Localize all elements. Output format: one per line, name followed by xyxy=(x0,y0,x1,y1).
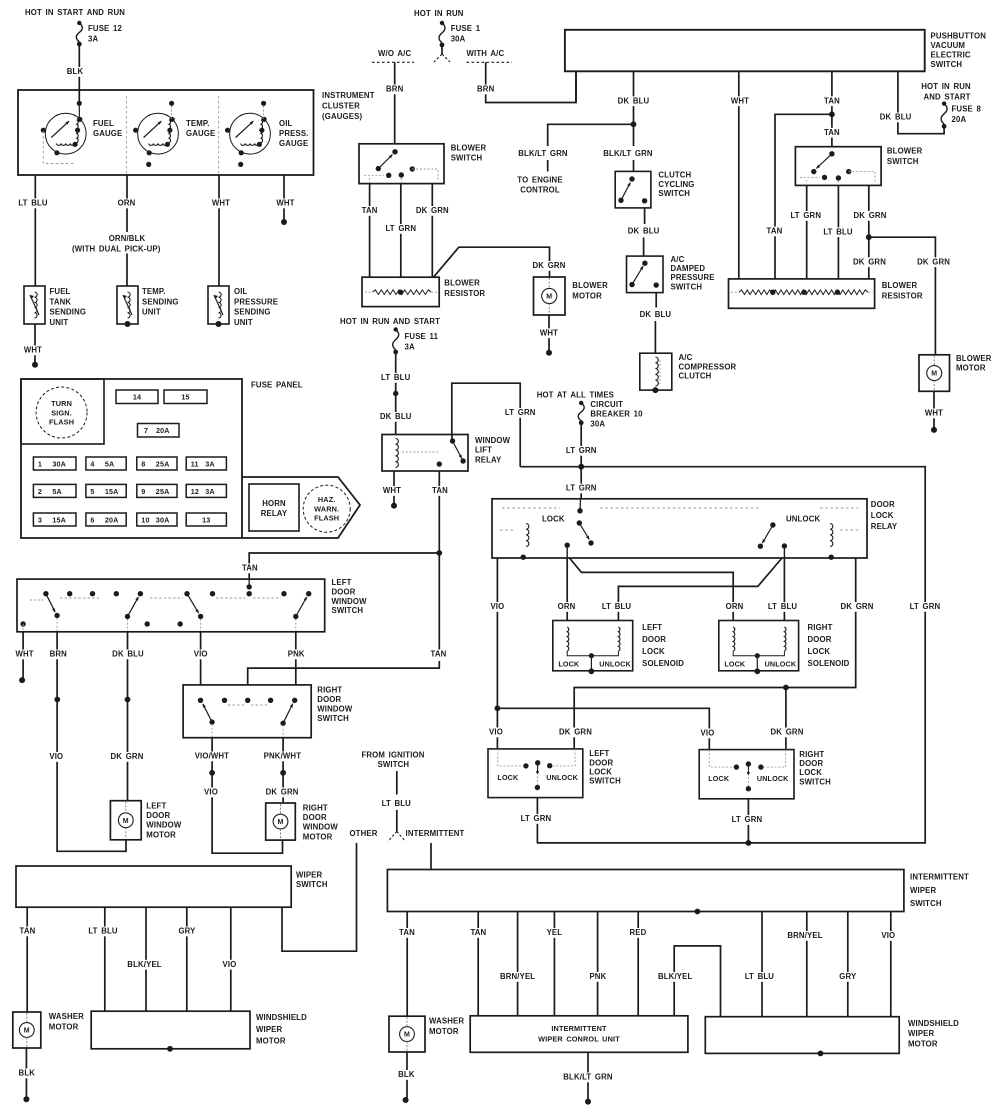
wire split w/o A/C vs with A/C xyxy=(441,45,443,54)
svg-text:DK GRN: DK GRN xyxy=(266,788,299,797)
label ORN/BLK with dual pick-up xyxy=(95,232,159,253)
wire LT BLU relay to right solenoid xyxy=(783,558,785,621)
svg-text:RIGHT: RIGHT xyxy=(317,686,342,695)
svg-text:WINDSHIELD: WINDSHIELD xyxy=(256,1013,307,1022)
oil pressure sending unit xyxy=(208,286,229,324)
wire VIO to right window switch xyxy=(200,632,202,685)
svg-text:PNK: PNK xyxy=(589,972,606,981)
wire BLK/YEL control unit to wiper motor xyxy=(674,946,720,1017)
svg-text:8: 8 xyxy=(141,459,145,468)
svg-text:PNK: PNK xyxy=(288,650,305,659)
svg-text:WIPER: WIPER xyxy=(908,1029,935,1038)
wire LT BLU to right wiper motor xyxy=(761,912,763,1017)
svg-text:6: 6 xyxy=(90,515,94,524)
svg-text:3A: 3A xyxy=(205,487,215,496)
svg-text:DK GRN: DK GRN xyxy=(917,257,950,266)
svg-text:DOOR: DOOR xyxy=(799,759,823,768)
svg-text:BLOWER: BLOWER xyxy=(572,281,608,290)
svg-text:LIFT: LIFT xyxy=(475,446,492,455)
wire LT GRN blower switch to resistor xyxy=(400,184,402,278)
svg-text:W/O A/C: W/O A/C xyxy=(378,49,411,58)
left door lock solenoid coils xyxy=(567,627,569,651)
svg-text:DK BLU: DK BLU xyxy=(380,412,412,421)
svg-text:10: 10 xyxy=(141,515,149,524)
blower motor left label xyxy=(532,261,566,271)
svg-text:FUSE 8: FUSE 8 xyxy=(952,105,982,114)
svg-text:CLUTCH: CLUTCH xyxy=(679,372,712,381)
svg-text:BLK/LT GRN: BLK/LT GRN xyxy=(518,149,568,158)
svg-text:LT BLU: LT BLU xyxy=(88,927,118,936)
svg-text:FLASH: FLASH xyxy=(49,418,74,427)
svg-text:PRESS.: PRESS. xyxy=(279,129,309,138)
svg-text:CIRCUIT: CIRCUIT xyxy=(590,400,623,409)
svg-text:SENDING: SENDING xyxy=(50,308,87,317)
blower switch left internals xyxy=(392,149,397,154)
svg-text:MOTOR: MOTOR xyxy=(303,832,333,841)
svg-text:INTERMITTENT: INTERMITTENT xyxy=(406,829,465,838)
wire WHT from cluster to oil sender xyxy=(218,175,220,286)
svg-text:DOOR: DOOR xyxy=(303,813,327,822)
clutch cycling switch box xyxy=(615,171,651,208)
svg-text:WHT: WHT xyxy=(731,96,749,105)
svg-text:HOT IN RUN: HOT IN RUN xyxy=(414,9,464,18)
right door window switch contacts xyxy=(198,698,203,703)
svg-text:WHT: WHT xyxy=(540,328,558,337)
svg-text:VIO: VIO xyxy=(489,728,503,737)
svg-text:FUSE 1: FUSE 1 xyxy=(451,24,481,33)
svg-text:WHT: WHT xyxy=(24,346,42,355)
svg-text:LT BLU: LT BLU xyxy=(381,373,411,382)
svg-text:HORN: HORN xyxy=(262,499,286,508)
door lock relay coils xyxy=(526,524,529,547)
svg-text:SWITCH: SWITCH xyxy=(296,880,328,889)
svg-text:LEFT: LEFT xyxy=(589,749,609,758)
svg-text:1: 1 xyxy=(38,459,42,468)
right door window switch box xyxy=(183,685,311,738)
svg-text:DOOR: DOOR xyxy=(317,695,341,704)
svg-text:TAN: TAN xyxy=(399,928,415,937)
svg-text:BREAKER 10: BREAKER 10 xyxy=(590,410,643,419)
wire ORN from cluster xyxy=(126,175,128,286)
svg-text:WIPER: WIPER xyxy=(256,1025,283,1034)
svg-text:WITH A/C: WITH A/C xyxy=(467,49,505,58)
svg-text:DK BLU: DK BLU xyxy=(618,96,650,105)
svg-text:RESISTOR: RESISTOR xyxy=(444,289,485,298)
svg-text:15: 15 xyxy=(181,393,189,402)
svg-text:LT BLU: LT BLU xyxy=(745,972,775,981)
svg-text:3A: 3A xyxy=(205,459,215,468)
svg-text:5A: 5A xyxy=(105,459,115,468)
svg-text:LOCK: LOCK xyxy=(871,511,894,520)
svg-text:VIO: VIO xyxy=(223,960,237,969)
fuse 13 xyxy=(186,513,226,526)
svg-text:RIGHT: RIGHT xyxy=(799,750,824,759)
left door lock solenoid box xyxy=(553,621,633,671)
windshield wiper motor left box xyxy=(91,1011,250,1049)
wire LT BLU to wiper motor xyxy=(104,907,106,1011)
svg-text:30A: 30A xyxy=(590,419,605,428)
wire DK GRN resistor to left blower motor xyxy=(434,247,550,277)
svg-text:SWITCH: SWITCH xyxy=(910,899,942,908)
svg-text:WHT: WHT xyxy=(15,650,33,659)
windshield wiper motor right box xyxy=(705,1017,899,1054)
svg-text:ORN/BLK: ORN/BLK xyxy=(109,234,146,243)
wire DK GRN branch to right blower motor xyxy=(869,237,936,355)
svg-text:11: 11 xyxy=(191,459,199,468)
wire PNK to right window switch xyxy=(295,632,297,685)
blower resistor right box xyxy=(729,279,875,308)
svg-text:3A: 3A xyxy=(405,343,415,352)
blower switch left box xyxy=(359,144,444,184)
fuse 6 20A xyxy=(86,513,126,526)
svg-text:WASHER: WASHER xyxy=(429,1017,464,1026)
svg-text:VIO: VIO xyxy=(49,752,63,761)
wire crossover lock to right solenoid ORN xyxy=(570,558,734,621)
wire VIO/WHT / VIO to right window motor xyxy=(212,738,282,854)
svg-text:30A: 30A xyxy=(451,35,466,44)
svg-text:MOTOR: MOTOR xyxy=(429,1027,459,1036)
svg-text:VIO: VIO xyxy=(701,729,715,738)
svg-text:LOCK: LOCK xyxy=(708,774,730,783)
wire LT BLU from cluster xyxy=(34,175,36,286)
svg-text:WIPER CONROL UNIT: WIPER CONROL UNIT xyxy=(538,1035,620,1044)
svg-text:TAN: TAN xyxy=(242,564,258,573)
svg-text:DK BLU: DK BLU xyxy=(628,227,660,236)
wire TAN wiper switch to washer motor xyxy=(26,907,28,1012)
fuse F1 30A xyxy=(439,23,445,43)
fuse panel outline xyxy=(21,379,360,538)
ignition wire split other/intermittent xyxy=(388,831,397,841)
wire BRN with A/C to pushbutton switch xyxy=(486,62,576,102)
door lock relay box xyxy=(492,499,867,558)
svg-text:12: 12 xyxy=(191,487,199,496)
svg-text:A/C: A/C xyxy=(679,353,693,362)
svg-text:INSTRUMENT: INSTRUMENT xyxy=(322,91,375,100)
svg-text:CLUTCH: CLUTCH xyxy=(658,171,691,180)
svg-text:13: 13 xyxy=(202,515,210,524)
svg-text:BRN/YEL: BRN/YEL xyxy=(500,972,535,981)
wire DK BLU / DK GRN to left window motor xyxy=(127,632,129,801)
svg-text:VIO/WHT: VIO/WHT xyxy=(195,752,229,761)
wire WHT right blower motor to ground xyxy=(933,391,935,430)
wire VIO branch to right lock switch xyxy=(497,708,709,749)
svg-text:HOT IN START AND RUN: HOT IN START AND RUN xyxy=(25,8,125,17)
A/C damped pressure switch internals xyxy=(642,261,647,266)
svg-text:WHT: WHT xyxy=(925,409,943,418)
blower resistor right element xyxy=(739,290,868,295)
svg-text:M: M xyxy=(404,1032,410,1039)
svg-text:FUEL: FUEL xyxy=(93,119,114,128)
svg-text:RELAY: RELAY xyxy=(261,509,288,518)
wire LT BLU from ignition switch xyxy=(396,771,398,795)
svg-text:20A: 20A xyxy=(105,515,119,524)
svg-text:GAUGE: GAUGE xyxy=(93,129,122,138)
svg-text:WINDOW: WINDOW xyxy=(146,821,182,830)
svg-text:SOLENOID: SOLENOID xyxy=(808,659,850,668)
svg-text:LT BLU: LT BLU xyxy=(602,602,632,611)
svg-text:SWITCH: SWITCH xyxy=(332,606,364,615)
svg-text:TO ENGINE: TO ENGINE xyxy=(517,176,562,185)
svg-text:BRN: BRN xyxy=(386,85,404,94)
svg-text:YEL: YEL xyxy=(547,928,563,937)
svg-text:FLASH: FLASH xyxy=(314,514,339,523)
fuse 15 xyxy=(164,390,207,404)
svg-text:UNLOCK: UNLOCK xyxy=(546,773,578,782)
wire GRY to wiper motor xyxy=(186,907,188,1011)
svg-text:DOOR: DOOR xyxy=(332,587,356,596)
svg-text:20A: 20A xyxy=(952,115,967,124)
wire BLK washer motor to ground xyxy=(25,1048,27,1099)
svg-text:SWITCH: SWITCH xyxy=(799,777,831,786)
wire VIO to wiper motor xyxy=(230,907,232,1011)
wire BRN/YEL to control unit xyxy=(517,912,519,1016)
svg-text:LEFT: LEFT xyxy=(146,802,166,811)
wire BRN/YEL to right wiper motor xyxy=(806,912,808,1017)
svg-text:LT GRN: LT GRN xyxy=(910,602,941,611)
svg-text:LT GRN: LT GRN xyxy=(566,484,597,493)
wire VIO door lock relay down xyxy=(496,558,498,749)
svg-text:CYCLING: CYCLING xyxy=(658,180,694,189)
svg-text:FUSE 11: FUSE 11 xyxy=(405,332,439,341)
right door lock solenoid coils xyxy=(733,627,735,651)
window lift relay coil xyxy=(396,439,399,468)
svg-text:FUEL: FUEL xyxy=(50,287,71,296)
svg-text:GAUGE: GAUGE xyxy=(279,139,308,148)
svg-text:PRESSURE: PRESSURE xyxy=(671,273,715,282)
svg-text:COMPRESSOR: COMPRESSOR xyxy=(679,362,737,371)
svg-text:BRN/YEL: BRN/YEL xyxy=(787,931,822,940)
wire LT GRN breaker to door lock relay xyxy=(580,423,582,499)
svg-text:OIL: OIL xyxy=(234,287,248,296)
wire DK BLU pushbutton to splice xyxy=(633,71,635,124)
svg-text:RESISTOR: RESISTOR xyxy=(882,292,923,301)
window lift relay box xyxy=(382,435,468,472)
svg-text:LOCK: LOCK xyxy=(497,773,519,782)
right door lock switch box xyxy=(699,750,794,799)
wire LT GRN bus to right side xyxy=(520,467,925,843)
svg-text:MOTOR: MOTOR xyxy=(956,363,986,372)
wire DK BLU clutch switch to damped pressure switch xyxy=(644,208,646,224)
svg-text:CONTROL: CONTROL xyxy=(520,186,560,195)
svg-text:BLOWER: BLOWER xyxy=(956,354,992,363)
svg-text:DK GRN: DK GRN xyxy=(559,728,592,737)
svg-text:9: 9 xyxy=(141,487,145,496)
svg-text:30A: 30A xyxy=(52,459,66,468)
fuse F12 3A xyxy=(76,23,82,42)
circuit breaker 10 30A xyxy=(578,403,584,421)
svg-text:5: 5 xyxy=(90,487,94,496)
wire TAN branch to right resistor xyxy=(775,114,832,279)
svg-text:PNK/WHT: PNK/WHT xyxy=(264,752,302,761)
fuse 8 25A xyxy=(137,457,177,470)
pushbutton vacuum electric switch box xyxy=(565,30,925,72)
svg-text:(GAUGES): (GAUGES) xyxy=(322,112,362,121)
svg-text:LT GRN: LT GRN xyxy=(732,815,763,824)
wire DK GRN relay to lock switches xyxy=(574,558,856,749)
svg-text:GRY: GRY xyxy=(178,927,196,936)
blower switch right box xyxy=(795,147,881,186)
wire VIO to right wiper motor xyxy=(890,912,892,1017)
svg-text:LT BLU: LT BLU xyxy=(823,227,853,236)
fuse 10 30A xyxy=(137,513,177,526)
blower switch right internals xyxy=(829,151,834,156)
svg-text:UNLOCK: UNLOCK xyxy=(599,660,631,669)
svg-text:DK GRN: DK GRN xyxy=(533,261,566,270)
svg-text:BLOWER: BLOWER xyxy=(882,281,918,290)
svg-text:DK GRN: DK GRN xyxy=(771,728,804,737)
wire TAN to right washer motor xyxy=(406,912,408,1017)
svg-text:M: M xyxy=(278,819,284,826)
svg-text:WIPER: WIPER xyxy=(910,886,937,895)
svg-text:DK GRN: DK GRN xyxy=(841,602,874,611)
svg-text:3A: 3A xyxy=(88,35,98,44)
svg-text:BRN: BRN xyxy=(50,650,68,659)
svg-text:PUSHBUTTON: PUSHBUTTON xyxy=(931,32,987,41)
svg-text:BLK/YEL: BLK/YEL xyxy=(127,960,161,969)
svg-text:RED: RED xyxy=(629,928,646,937)
wire crossover unlock to left solenoid LT BLU xyxy=(618,558,782,621)
wire WHT below fuel sender to ground xyxy=(34,324,36,365)
left door lock switch internals xyxy=(523,763,528,768)
fuse F8 20A xyxy=(941,104,947,124)
A/C compressor clutch box xyxy=(640,353,672,390)
svg-text:LOCK: LOCK xyxy=(799,768,822,777)
svg-text:INTERMITTENT: INTERMITTENT xyxy=(551,1024,607,1033)
door lock relay lock contacts xyxy=(577,508,582,513)
wire LT GRN left lock switch down xyxy=(536,798,538,843)
svg-text:BLK: BLK xyxy=(67,67,84,76)
svg-text:MOTOR: MOTOR xyxy=(256,1037,286,1046)
svg-text:M: M xyxy=(931,371,937,378)
svg-text:SOLENOID: SOLENOID xyxy=(642,659,684,668)
svg-text:SWITCH: SWITCH xyxy=(589,777,621,786)
left door window switch box xyxy=(17,579,325,632)
wire BLK to instrument cluster xyxy=(78,44,80,102)
wire TAN relay to window switches xyxy=(438,471,440,553)
svg-text:BLK: BLK xyxy=(19,1069,36,1078)
svg-text:DK BLU: DK BLU xyxy=(112,650,144,659)
right door window motor xyxy=(266,803,296,840)
intermittent wiper switch box xyxy=(387,870,904,912)
wire RED to control unit xyxy=(637,912,639,1016)
door lock relay unlock contacts xyxy=(770,522,775,527)
svg-text:SWITCH: SWITCH xyxy=(378,760,410,769)
right door lock solenoid box xyxy=(719,621,799,671)
svg-text:SIGN.: SIGN. xyxy=(51,408,72,417)
wire DK GRN right switch to resistor xyxy=(868,185,870,279)
svg-text:VIO: VIO xyxy=(194,650,208,659)
svg-text:TAN: TAN xyxy=(20,927,36,936)
svg-text:SWITCH: SWITCH xyxy=(451,154,483,163)
svg-text:WINDOW: WINDOW xyxy=(332,597,368,606)
svg-text:SWITCH: SWITCH xyxy=(931,60,963,69)
svg-text:25A: 25A xyxy=(156,459,170,468)
wire pushbutton pin1 to BRN join xyxy=(575,71,577,102)
svg-text:MOTOR: MOTOR xyxy=(908,1039,938,1048)
svg-text:30A: 30A xyxy=(156,515,170,524)
fuel gauge xyxy=(45,113,86,154)
svg-text:HAZ.: HAZ. xyxy=(318,495,336,504)
svg-text:BLOWER: BLOWER xyxy=(444,279,480,288)
svg-text:5A: 5A xyxy=(52,487,62,496)
svg-text:RELAY: RELAY xyxy=(871,522,898,531)
svg-text:VIO: VIO xyxy=(204,788,218,797)
blower motor left xyxy=(534,277,566,315)
svg-text:ELECTRIC: ELECTRIC xyxy=(931,51,971,60)
svg-text:TAN: TAN xyxy=(767,227,783,236)
wire GRY to right wiper motor xyxy=(847,912,849,1017)
wire LT GRN right lock switch down xyxy=(747,799,749,843)
left door window switch contacts xyxy=(43,591,48,596)
svg-text:TAN: TAN xyxy=(431,650,447,659)
svg-text:ORN: ORN xyxy=(726,602,744,611)
A/C compressor clutch coil xyxy=(655,357,658,386)
svg-text:LT BLU: LT BLU xyxy=(18,199,48,208)
turn signal flasher xyxy=(21,379,104,444)
svg-text:FROM IGNITION: FROM IGNITION xyxy=(361,751,424,760)
svg-text:WHT: WHT xyxy=(276,199,294,208)
svg-text:BLK: BLK xyxy=(398,1070,415,1079)
fuse 12 3A xyxy=(186,484,226,497)
svg-text:7: 7 xyxy=(144,426,148,435)
fuel tank sending unit xyxy=(24,286,45,324)
svg-text:LOCK: LOCK xyxy=(589,768,612,777)
fuse 11 3A xyxy=(186,457,226,470)
wire WHT window switch to ground xyxy=(22,632,24,680)
svg-text:LT GRN: LT GRN xyxy=(385,224,416,233)
wire DK GRN blower switch to resistor xyxy=(431,184,433,278)
wire WHT stub with ground xyxy=(283,175,285,222)
svg-text:LOCK: LOCK xyxy=(724,660,746,669)
wire LT BLU right switch to resistor xyxy=(837,185,839,279)
svg-text:TAN: TAN xyxy=(824,128,840,137)
svg-text:INTERMITTENT: INTERMITTENT xyxy=(910,873,969,882)
svg-text:UNIT: UNIT xyxy=(234,318,253,327)
svg-text:TAN: TAN xyxy=(432,486,448,495)
svg-text:TURN: TURN xyxy=(51,399,72,408)
svg-text:DK GRN: DK GRN xyxy=(854,211,887,220)
svg-text:FUSE 12: FUSE 12 xyxy=(88,24,122,33)
svg-text:2: 2 xyxy=(38,487,42,496)
svg-text:LT GRN: LT GRN xyxy=(790,211,821,220)
svg-text:RELAY: RELAY xyxy=(475,455,502,464)
svg-text:4: 4 xyxy=(90,459,94,468)
svg-text:BRN: BRN xyxy=(477,85,495,94)
right door lock switch internals xyxy=(734,764,739,769)
svg-text:UNIT: UNIT xyxy=(50,318,69,327)
svg-text:BLOWER: BLOWER xyxy=(451,144,487,153)
left door window motor xyxy=(110,801,141,840)
wire DK BLU to compressor clutch xyxy=(655,293,657,308)
wire BRN / VIO to left window motor xyxy=(57,632,126,852)
svg-text:WHT: WHT xyxy=(212,199,230,208)
horn relay xyxy=(249,484,299,531)
fuse 14 xyxy=(116,390,158,404)
svg-text:3: 3 xyxy=(38,515,42,524)
svg-text:UNLOCK: UNLOCK xyxy=(757,774,789,783)
svg-text:DK GRN: DK GRN xyxy=(853,257,886,266)
svg-text:FUSE PANEL: FUSE PANEL xyxy=(251,381,303,390)
svg-text:OTHER: OTHER xyxy=(349,829,377,838)
svg-text:M: M xyxy=(546,294,552,301)
svg-text:BLK/YEL: BLK/YEL xyxy=(658,972,692,981)
temp gauge xyxy=(138,113,179,154)
svg-text:TAN: TAN xyxy=(362,206,378,215)
svg-text:CLUSTER: CLUSTER xyxy=(322,102,360,111)
svg-text:LOCK: LOCK xyxy=(808,647,831,656)
svg-text:LEFT: LEFT xyxy=(332,578,352,587)
wire other branch to wiper switch xyxy=(282,843,357,951)
